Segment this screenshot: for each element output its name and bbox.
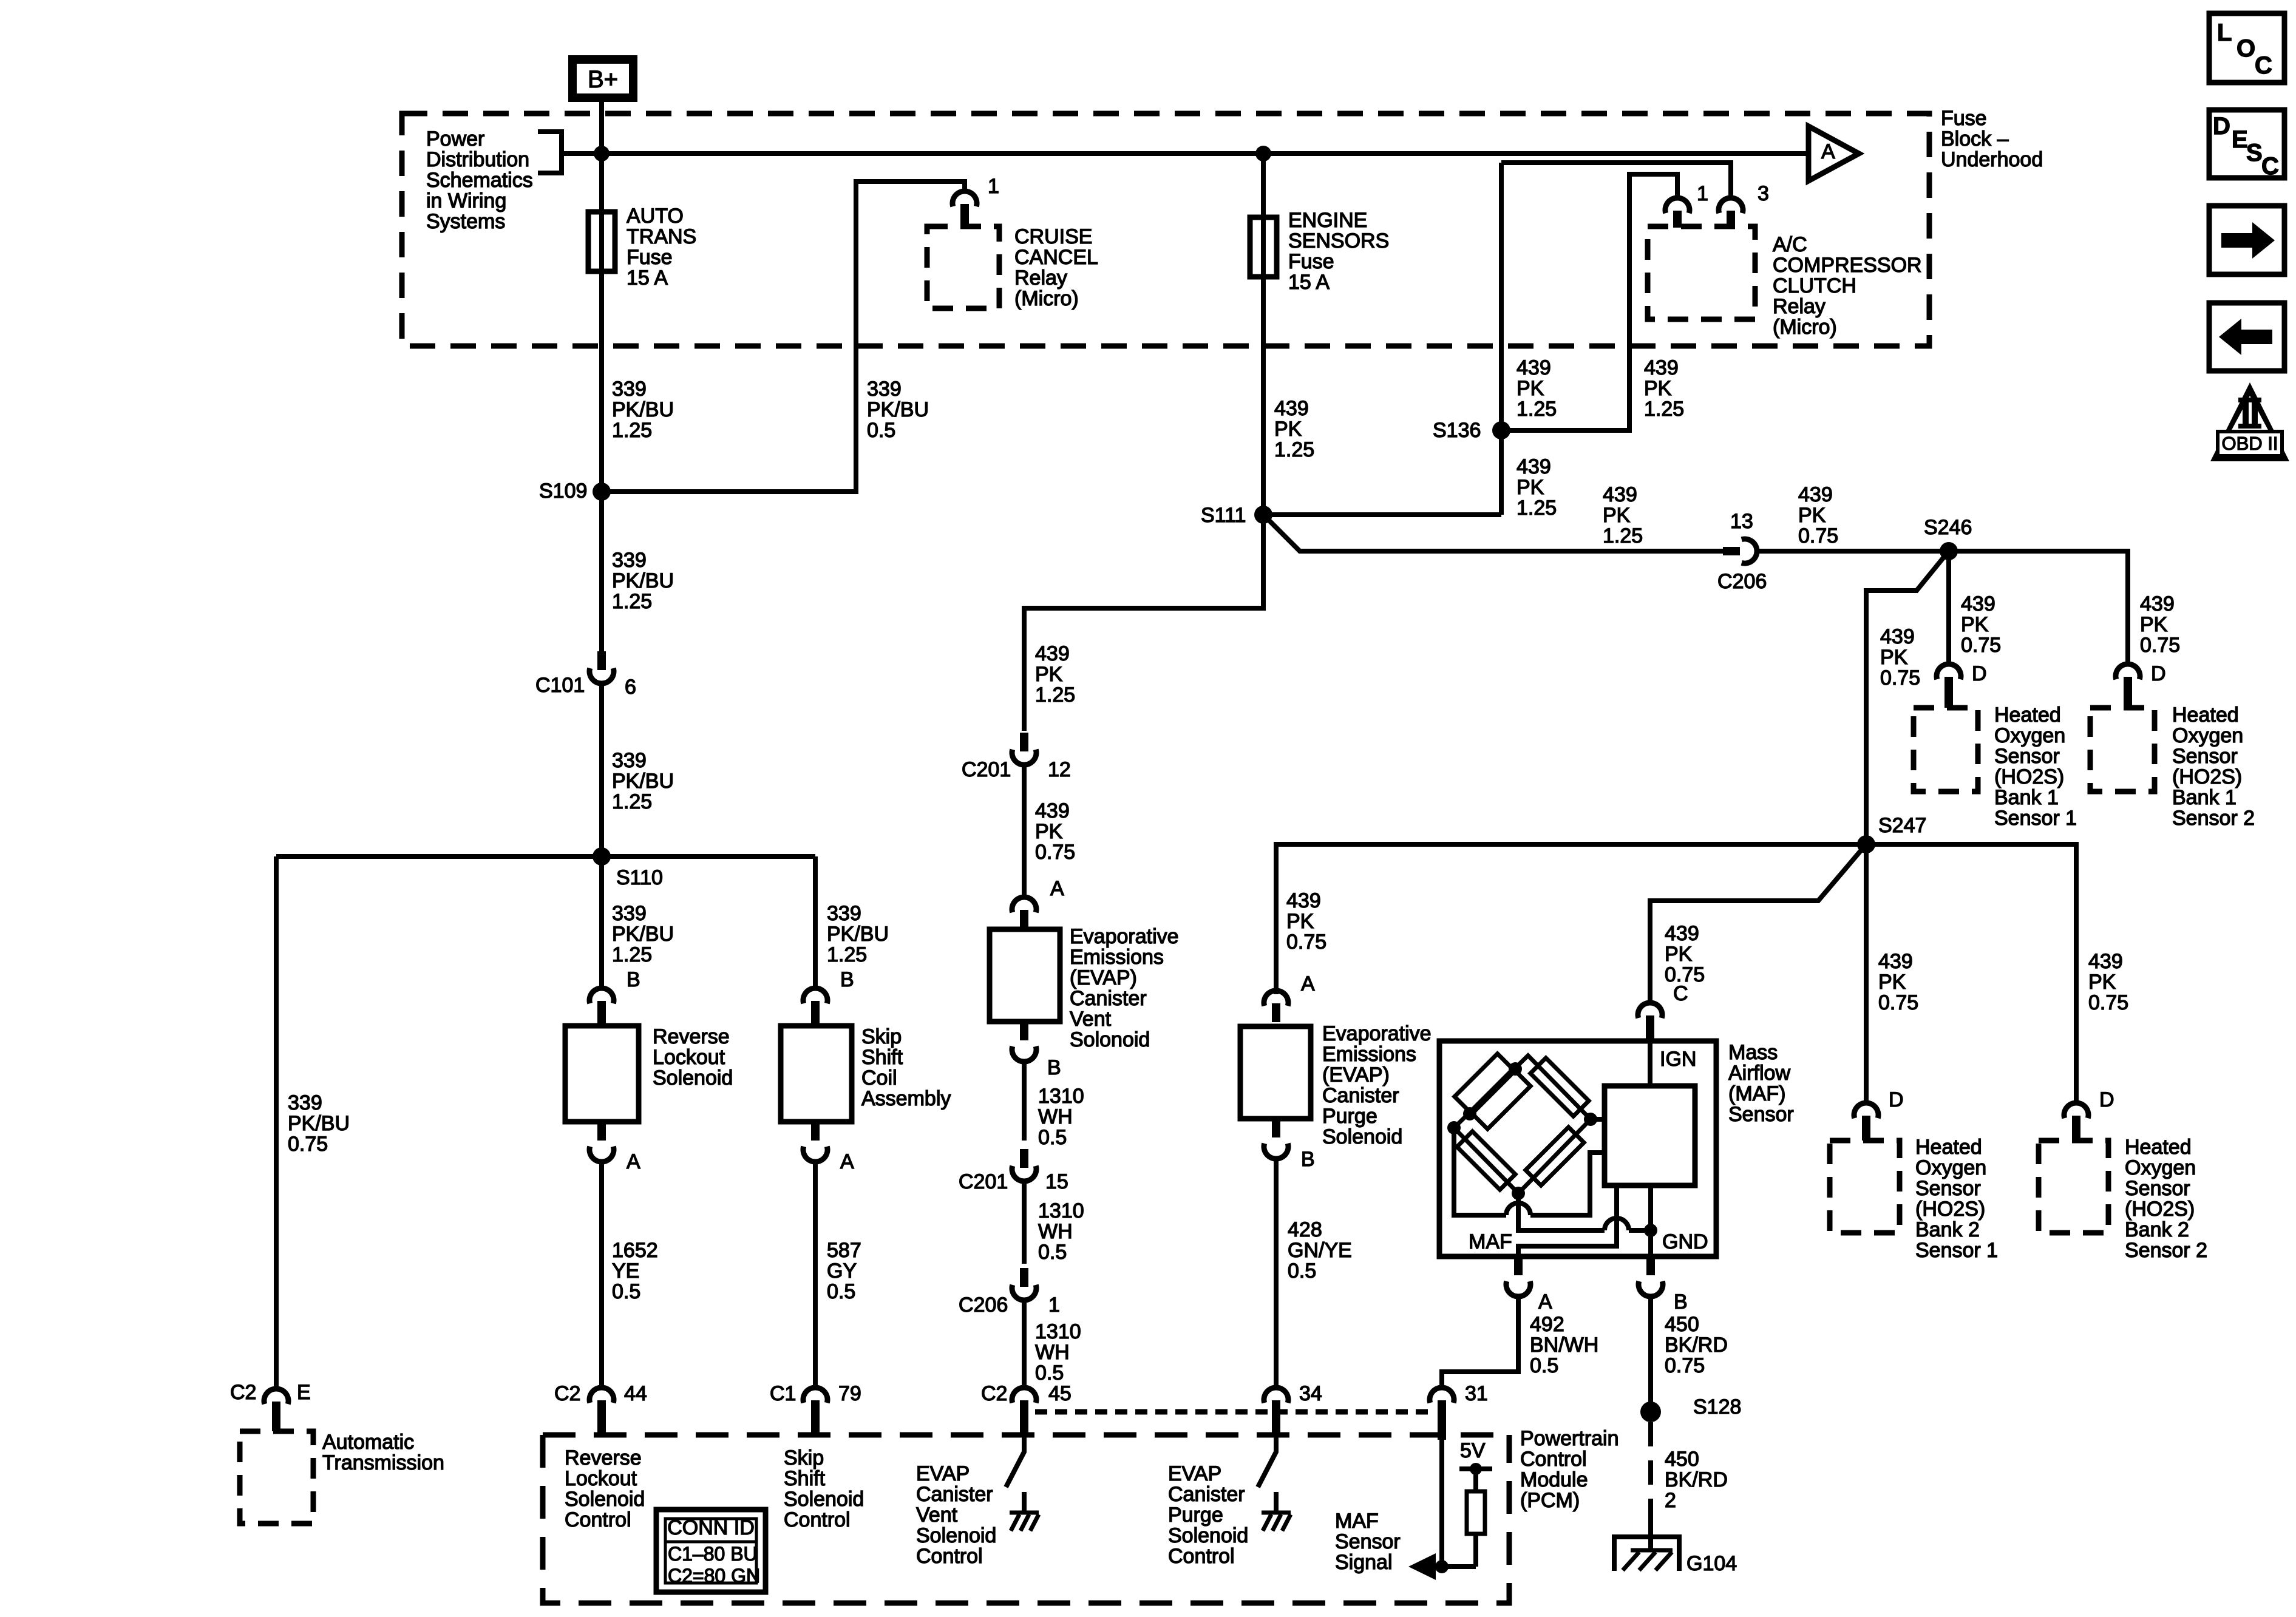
svg-text:1.25: 1.25 bbox=[612, 590, 652, 613]
svg-text:439: 439 bbox=[1961, 592, 1995, 615]
svg-text:15 A: 15 A bbox=[1288, 271, 1330, 294]
wire MAF B to S128 bbox=[1648, 1295, 1653, 1412]
MAF sensor outer box bbox=[1439, 1041, 1716, 1256]
wire S128 to G104 dashed bbox=[1648, 1422, 1653, 1524]
svg-text:Vent: Vent bbox=[1070, 1008, 1112, 1031]
wire B+ down through AUTO TRANS fuse to S109 bbox=[599, 102, 604, 492]
svg-text:0.75: 0.75 bbox=[1880, 666, 1920, 690]
wire S110 right branch to skip shift bbox=[813, 856, 818, 988]
svg-text:439: 439 bbox=[1035, 799, 1070, 822]
connector C206 pin 1 inline bbox=[1012, 1285, 1036, 1300]
svg-text:439: 439 bbox=[1880, 625, 1915, 648]
svg-text:439: 439 bbox=[2088, 950, 2123, 973]
wire MAF A to PCM pin 31 bbox=[1442, 1295, 1518, 1388]
svg-text:6: 6 bbox=[625, 676, 636, 699]
svg-text:3: 3 bbox=[1758, 182, 1769, 205]
svg-text:45: 45 bbox=[1048, 1382, 1072, 1405]
wire bridge left corner loop to amplifier with hop bbox=[1454, 1128, 1506, 1215]
svg-text:Bank 2: Bank 2 bbox=[1915, 1218, 1980, 1241]
svg-text:1.25: 1.25 bbox=[827, 943, 867, 966]
svg-text:0.5: 0.5 bbox=[867, 419, 895, 442]
svg-text:A: A bbox=[840, 1150, 854, 1173]
EVAP purge driver switch and ground bbox=[1258, 1435, 1276, 1487]
svg-text:31: 31 bbox=[1465, 1382, 1488, 1405]
svg-text:Control: Control bbox=[784, 1508, 851, 1531]
svg-text:PK/BU: PK/BU bbox=[612, 770, 674, 793]
connector pin C MAF bbox=[1638, 1003, 1662, 1018]
node S109 bbox=[593, 483, 611, 501]
svg-text:Canister: Canister bbox=[1322, 1084, 1399, 1107]
svg-text:Automatic: Automatic bbox=[322, 1431, 414, 1454]
svg-text:PK: PK bbox=[2140, 613, 2168, 636]
svg-text:0.5: 0.5 bbox=[612, 1280, 640, 1303]
svg-text:BK/RD: BK/RD bbox=[1665, 1334, 1728, 1357]
svg-text:B: B bbox=[627, 968, 640, 991]
svg-text:in Wiring: in Wiring bbox=[426, 189, 506, 212]
wire S247 down to HO2S B2S1 bbox=[1864, 844, 1869, 1103]
svg-text:PK/BU: PK/BU bbox=[827, 923, 889, 946]
svg-text:Solonoid: Solonoid bbox=[1070, 1028, 1150, 1051]
pin 1 connector of cruise cancel relay bbox=[953, 191, 977, 206]
wire S110 horizontal bbox=[276, 854, 815, 859]
svg-text:D: D bbox=[2213, 113, 2230, 140]
svg-text:WH: WH bbox=[1035, 1341, 1070, 1364]
connector PCM pin 31 bbox=[1430, 1388, 1454, 1403]
svg-text:0.75: 0.75 bbox=[2088, 991, 2128, 1014]
wire purge B to PCM pin 34 bbox=[1274, 1158, 1279, 1388]
wire bridge right corner to amplifier bbox=[1591, 1117, 1605, 1122]
svg-text:Reverse: Reverse bbox=[653, 1025, 730, 1048]
svg-text:YE: YE bbox=[612, 1259, 639, 1283]
svg-text:Sensor: Sensor bbox=[1728, 1103, 1794, 1126]
svg-text:C1–80 BU: C1–80 BU bbox=[668, 1543, 758, 1565]
svg-text:GY: GY bbox=[827, 1259, 857, 1283]
svg-text:EVAP: EVAP bbox=[1168, 1462, 1221, 1485]
svg-text:Heated: Heated bbox=[2172, 703, 2239, 727]
svg-text:439: 439 bbox=[1878, 950, 1913, 973]
svg-text:PK: PK bbox=[1878, 971, 1906, 994]
wire C101-6 to S110 bbox=[599, 682, 604, 856]
svg-text:S111: S111 bbox=[1201, 504, 1246, 527]
svg-text:339: 339 bbox=[867, 378, 902, 401]
svg-text:Skip: Skip bbox=[784, 1446, 824, 1470]
svg-text:1310: 1310 bbox=[1038, 1085, 1084, 1108]
svg-text:PK/BU: PK/BU bbox=[612, 923, 674, 946]
svg-text:Bank 1: Bank 1 bbox=[2172, 786, 2237, 809]
svg-text:1.25: 1.25 bbox=[612, 419, 652, 442]
svg-text:PK: PK bbox=[1517, 377, 1544, 400]
svg-text:450: 450 bbox=[1665, 1313, 1699, 1336]
connector pin A EVAP purge bbox=[1264, 991, 1288, 1006]
svg-text:0.5: 0.5 bbox=[1038, 1126, 1067, 1149]
svg-text:439: 439 bbox=[1644, 356, 1679, 379]
icon left arrow box bbox=[2209, 303, 2284, 371]
svg-text:(EVAP): (EVAP) bbox=[1322, 1063, 1390, 1086]
svg-text:B: B bbox=[1301, 1148, 1315, 1171]
svg-text:0.75: 0.75 bbox=[1665, 1354, 1705, 1377]
node S111 bbox=[1254, 506, 1272, 524]
svg-text:B: B bbox=[1674, 1290, 1688, 1314]
svg-text:Heated: Heated bbox=[1915, 1136, 1982, 1159]
svg-text:0.5: 0.5 bbox=[1530, 1354, 1558, 1377]
svg-text:12: 12 bbox=[1048, 758, 1071, 781]
svg-text:Heated: Heated bbox=[2125, 1136, 2192, 1159]
wire pin3 feed from S136 riser bbox=[1501, 163, 1731, 198]
svg-text:S: S bbox=[2246, 140, 2263, 166]
svg-text:A: A bbox=[1821, 140, 1835, 163]
svg-text:79: 79 bbox=[838, 1382, 861, 1405]
svg-text:450: 450 bbox=[1665, 1448, 1699, 1471]
connector C101 pin 6 inline bbox=[599, 492, 604, 651]
svg-text:B+: B+ bbox=[588, 66, 618, 93]
connector pin B EVAP vent bbox=[1020, 1022, 1028, 1040]
svg-text:C: C bbox=[2255, 52, 2272, 79]
svg-text:A/C: A/C bbox=[1773, 233, 1807, 256]
svg-text:A: A bbox=[1301, 972, 1315, 995]
svg-text:0.75: 0.75 bbox=[1286, 931, 1326, 954]
svg-text:Relay: Relay bbox=[1014, 266, 1067, 290]
svg-text:Underhood: Underhood bbox=[1941, 148, 2043, 171]
svg-text:C2: C2 bbox=[981, 1382, 1007, 1405]
PCM dashed box bbox=[543, 1435, 1509, 1603]
svg-text:L: L bbox=[2217, 19, 2232, 46]
svg-text:S136: S136 bbox=[1433, 419, 1481, 442]
svg-text:Sensor: Sensor bbox=[1335, 1530, 1401, 1553]
PCM internal dotted connector line bbox=[1035, 1409, 1430, 1415]
ground G104 bbox=[1614, 1537, 1679, 1571]
svg-text:S109: S109 bbox=[539, 480, 587, 503]
wire S246 diagonal to S247 bbox=[1866, 551, 1949, 844]
svg-text:492: 492 bbox=[1530, 1313, 1564, 1336]
svg-text:Fuse: Fuse bbox=[1288, 250, 1334, 273]
solenoid EVAP canister vent box bbox=[990, 929, 1060, 1022]
wire bridge bottom to GND with hop bbox=[1518, 1193, 1605, 1230]
svg-text:339: 339 bbox=[612, 549, 647, 572]
svg-text:(HO2S): (HO2S) bbox=[1915, 1198, 1985, 1221]
svg-text:Solenoid: Solenoid bbox=[784, 1488, 864, 1511]
wire C206-1 to PCM C2-45 bbox=[1022, 1299, 1027, 1388]
wire S110 down to reverse lockout bbox=[599, 856, 604, 988]
wire EVAP vent B to C201-15 bbox=[1022, 1060, 1027, 1141]
svg-text:PK: PK bbox=[1603, 504, 1631, 527]
svg-text:1.25: 1.25 bbox=[612, 790, 652, 813]
EVAP vent driver switch and ground bbox=[1006, 1435, 1024, 1487]
svg-text:A: A bbox=[1050, 877, 1064, 900]
wire S111 to C206 bbox=[1263, 515, 1723, 551]
svg-text:339: 339 bbox=[612, 749, 647, 772]
svg-text:Oxygen: Oxygen bbox=[2172, 724, 2243, 747]
svg-text:1652: 1652 bbox=[612, 1239, 658, 1262]
svg-text:Emissions: Emissions bbox=[1322, 1043, 1416, 1066]
svg-text:Mass: Mass bbox=[1728, 1041, 1778, 1064]
node bus junction at B+ bbox=[594, 146, 610, 161]
pin 1 connector of A/C relay bbox=[1665, 198, 1690, 213]
svg-text:BK/RD: BK/RD bbox=[1665, 1468, 1728, 1491]
svg-text:B: B bbox=[1047, 1056, 1061, 1079]
wire S136 to pin 1 of A/C relay bbox=[1501, 174, 1677, 430]
svg-text:(EVAP): (EVAP) bbox=[1070, 966, 1137, 989]
connector pin A reverse lockout bbox=[597, 1122, 606, 1141]
svg-text:439: 439 bbox=[1665, 922, 1699, 945]
svg-text:C201: C201 bbox=[959, 1170, 1008, 1193]
svg-text:E: E bbox=[297, 1381, 311, 1404]
sensor HO2S Bank1 Sensor1 dashed box bbox=[1914, 708, 1978, 792]
connector pin A EVAP vent bbox=[1012, 897, 1036, 912]
relay A/C COMPRESSOR CLUTCH (Micro) dashed box bbox=[1648, 226, 1755, 319]
svg-text:0.75: 0.75 bbox=[288, 1133, 328, 1156]
connector pin B MAF (ground) bbox=[1646, 1256, 1655, 1275]
connector pin A skip shift bbox=[811, 1122, 820, 1141]
svg-text:Bank 1: Bank 1 bbox=[1994, 786, 2059, 809]
svg-text:C2: C2 bbox=[554, 1382, 580, 1405]
connector C2 pin E automatic transmission bbox=[264, 1389, 288, 1404]
svg-text:MAF: MAF bbox=[1469, 1230, 1512, 1253]
svg-text:PK/BU: PK/BU bbox=[288, 1112, 350, 1135]
svg-text:(HO2S): (HO2S) bbox=[2125, 1198, 2195, 1221]
node S110 bbox=[593, 847, 611, 866]
svg-text:587: 587 bbox=[827, 1239, 861, 1262]
svg-text:PK: PK bbox=[1035, 820, 1063, 843]
wire bus down through ENGINE SENSORS fuse to S111 bbox=[1261, 154, 1266, 515]
svg-text:Powertrain: Powertrain bbox=[1520, 1427, 1619, 1450]
svg-text:1: 1 bbox=[1697, 182, 1708, 205]
svg-text:Control: Control bbox=[916, 1545, 983, 1568]
svg-text:1310: 1310 bbox=[1038, 1199, 1084, 1222]
svg-text:(Micro): (Micro) bbox=[1014, 287, 1079, 310]
svg-text:A: A bbox=[627, 1150, 640, 1173]
connector pin D HO2S B1S2 bbox=[2116, 664, 2140, 679]
svg-text:(MAF): (MAF) bbox=[1728, 1082, 1785, 1105]
svg-text:0.5: 0.5 bbox=[1288, 1259, 1316, 1283]
svg-text:PK: PK bbox=[1644, 377, 1672, 400]
svg-text:Systems: Systems bbox=[426, 210, 505, 233]
svg-text:PK/BU: PK/BU bbox=[612, 569, 674, 592]
wire S136 riser bbox=[1499, 163, 1504, 515]
wire amplifier GND pin bbox=[1648, 1185, 1653, 1256]
svg-text:S247: S247 bbox=[1878, 814, 1926, 837]
sensor HO2S Bank1 Sensor2 dashed box bbox=[2090, 708, 2155, 792]
svg-text:E: E bbox=[2232, 126, 2248, 153]
svg-text:Purge: Purge bbox=[1322, 1105, 1377, 1128]
svg-text:Schematics: Schematics bbox=[426, 169, 533, 192]
svg-text:Emissions: Emissions bbox=[1070, 946, 1164, 969]
svg-text:1.25: 1.25 bbox=[1274, 438, 1314, 461]
svg-text:C1: C1 bbox=[770, 1382, 796, 1405]
svg-text:339: 339 bbox=[827, 902, 861, 925]
MAF signal arrow bbox=[1433, 1564, 1476, 1569]
svg-text:428: 428 bbox=[1288, 1218, 1322, 1241]
svg-text:PK: PK bbox=[1517, 476, 1544, 499]
svg-text:13: 13 bbox=[1730, 510, 1753, 533]
svg-text:C2=80 GN: C2=80 GN bbox=[668, 1565, 760, 1587]
wire C201-12 to EVAP vent A bbox=[1022, 764, 1027, 897]
svg-text:1.25: 1.25 bbox=[1517, 398, 1557, 421]
svg-text:PK: PK bbox=[1665, 943, 1693, 966]
connector pin D HO2S B2S1 bbox=[1854, 1103, 1878, 1118]
connector PCM pin C2-44 bbox=[589, 1388, 614, 1403]
svg-text:Shift: Shift bbox=[784, 1467, 826, 1490]
svg-text:Control: Control bbox=[1520, 1448, 1587, 1471]
svg-text:Sensor: Sensor bbox=[1915, 1177, 1981, 1200]
svg-text:C206: C206 bbox=[959, 1293, 1008, 1317]
connector PCM pin C1-79 bbox=[803, 1388, 827, 1403]
node bus junction at ENGINE SENSORS fuse bbox=[1255, 146, 1271, 161]
svg-text:Sensor 2: Sensor 2 bbox=[2172, 807, 2255, 830]
svg-text:0.5: 0.5 bbox=[827, 1280, 855, 1303]
sensor HO2S Bank2 Sensor1 dashed box bbox=[1830, 1141, 1900, 1233]
svg-text:PK: PK bbox=[2088, 971, 2116, 994]
connector pin A MAF (signal) bbox=[1514, 1256, 1523, 1275]
wire S136 riser to S111 bbox=[1263, 512, 1501, 517]
wire S246 down to HO2S B1S1 bbox=[1946, 551, 1951, 664]
sensor HO2S Bank2 Sensor2 dashed box bbox=[2039, 1141, 2108, 1233]
node S246 bbox=[1940, 542, 1958, 560]
svg-text:Bank 2: Bank 2 bbox=[2125, 1218, 2189, 1241]
MAF bridge resistors bbox=[1472, 1071, 1530, 1129]
svg-text:PK/BU: PK/BU bbox=[612, 398, 674, 421]
svg-text:B: B bbox=[840, 968, 854, 991]
svg-text:BN/WH: BN/WH bbox=[1530, 1334, 1598, 1357]
svg-text:PK: PK bbox=[1286, 910, 1314, 933]
svg-text:0.5: 0.5 bbox=[1035, 1361, 1064, 1385]
svg-text:WH: WH bbox=[1038, 1105, 1073, 1128]
svg-text:Oxygen: Oxygen bbox=[1915, 1156, 1986, 1179]
wire S109 to cruise cancel relay pin 1 bbox=[602, 181, 965, 492]
wire main bus to triangle A bbox=[602, 151, 1806, 156]
svg-text:Relay: Relay bbox=[1773, 295, 1826, 318]
wire S247 left to EVAP purge bbox=[1276, 844, 1866, 994]
svg-text:15: 15 bbox=[1045, 1170, 1068, 1193]
svg-text:Evaporative: Evaporative bbox=[1070, 925, 1179, 948]
svg-text:Fuse: Fuse bbox=[627, 246, 673, 269]
svg-text:A: A bbox=[1538, 1290, 1552, 1314]
relay CRUISE CANCEL (Micro) dashed box bbox=[927, 226, 999, 308]
wire IGN into amplifier bbox=[1648, 1041, 1652, 1086]
MAF internal amplifier box bbox=[1605, 1086, 1695, 1185]
svg-text:Control: Control bbox=[1168, 1545, 1235, 1568]
connector pin B reverse lockout bbox=[589, 988, 614, 1003]
fuse block underhood dashed box bbox=[402, 114, 1929, 346]
svg-text:S246: S246 bbox=[1924, 516, 1972, 539]
svg-text:PK: PK bbox=[1035, 663, 1063, 686]
svg-text:34: 34 bbox=[1299, 1382, 1322, 1405]
svg-text:CRUISE: CRUISE bbox=[1014, 225, 1092, 248]
connector C206 pin 13 inline bbox=[1742, 539, 1757, 563]
svg-text:TRANS: TRANS bbox=[627, 225, 696, 248]
svg-text:CANCEL: CANCEL bbox=[1014, 246, 1098, 269]
svg-text:C206: C206 bbox=[1717, 570, 1767, 593]
svg-text:Assembly: Assembly bbox=[861, 1087, 951, 1110]
svg-text:Skip: Skip bbox=[861, 1025, 902, 1048]
svg-text:44: 44 bbox=[624, 1382, 647, 1405]
wire amplifier output to MAF pin bbox=[1518, 1185, 1617, 1256]
wire S247 right to HO2S B2S2 bbox=[1866, 844, 2076, 1103]
svg-text:Oxygen: Oxygen bbox=[1994, 724, 2065, 747]
svg-text:Sensor: Sensor bbox=[2125, 1177, 2190, 1200]
connector pin B EVAP purge bbox=[1272, 1119, 1280, 1137]
node S247 bbox=[1857, 835, 1875, 853]
svg-text:1: 1 bbox=[1048, 1293, 1060, 1317]
connector C201 pin 15 inline bbox=[1012, 1166, 1036, 1181]
connector pin D HO2S B2S2 bbox=[2064, 1103, 2088, 1118]
svg-text:MAF: MAF bbox=[1335, 1510, 1379, 1533]
svg-text:Solenoid: Solenoid bbox=[565, 1488, 645, 1511]
svg-text:Sensor 1: Sensor 1 bbox=[1915, 1239, 1998, 1262]
wire C201-15 to C206-1 bbox=[1022, 1180, 1027, 1264]
connector C201 pin 12 inline bbox=[1012, 750, 1036, 765]
svg-text:1: 1 bbox=[988, 175, 999, 198]
svg-text:Purge: Purge bbox=[1168, 1503, 1223, 1527]
svg-text:Lockout: Lockout bbox=[565, 1467, 637, 1490]
wire reverse lockout A to PCM C2-44 bbox=[599, 1161, 604, 1388]
svg-text:CONN ID: CONN ID bbox=[667, 1516, 755, 1539]
svg-text:339: 339 bbox=[612, 902, 647, 925]
connector pin D HO2S B1S1 bbox=[1937, 664, 1961, 679]
svg-text:15 A: 15 A bbox=[627, 266, 668, 290]
svg-text:(HO2S): (HO2S) bbox=[1994, 765, 2064, 788]
svg-text:439: 439 bbox=[1286, 889, 1321, 912]
svg-text:0.75: 0.75 bbox=[1798, 524, 1838, 547]
wire C206 to S246 bbox=[1756, 549, 2128, 554]
wire skip shift A to PCM C1-79 bbox=[813, 1161, 818, 1388]
MAF bridge wires bbox=[1454, 1056, 1591, 1193]
svg-text:339: 339 bbox=[288, 1091, 322, 1114]
svg-text:Canister: Canister bbox=[916, 1483, 993, 1506]
svg-text:C: C bbox=[2261, 153, 2279, 180]
svg-text:D: D bbox=[2151, 662, 2166, 685]
svg-text:Solenoid: Solenoid bbox=[1168, 1524, 1248, 1547]
svg-text:C: C bbox=[1673, 982, 1688, 1005]
svg-text:439: 439 bbox=[2140, 592, 2175, 615]
svg-text:G104: G104 bbox=[1686, 1552, 1737, 1575]
fuse AUTO TRANS 15A bbox=[588, 212, 615, 271]
arrow A to fuse block bbox=[1809, 126, 1859, 181]
svg-text:(HO2S): (HO2S) bbox=[2172, 765, 2242, 788]
svg-text:Sensor: Sensor bbox=[1994, 745, 2060, 768]
svg-text:Solenoid: Solenoid bbox=[1322, 1125, 1402, 1148]
svg-text:0.75: 0.75 bbox=[1961, 634, 2001, 657]
svg-text:Airflow: Airflow bbox=[1728, 1062, 1790, 1085]
svg-text:439: 439 bbox=[1035, 642, 1070, 665]
svg-text:Canister: Canister bbox=[1168, 1483, 1245, 1506]
automatic transmission dashed box bbox=[240, 1431, 313, 1524]
wire S246 right to HO2S B1S2 bbox=[1949, 551, 2128, 664]
wire left branch to automatic transmission C2-E bbox=[274, 856, 279, 1389]
svg-text:C2: C2 bbox=[230, 1381, 256, 1404]
svg-text:0.75: 0.75 bbox=[1878, 991, 1918, 1014]
svg-text:1.25: 1.25 bbox=[1644, 398, 1684, 421]
power symbol B+ bbox=[572, 59, 633, 98]
svg-text:D: D bbox=[1972, 662, 1987, 685]
icon OBD II triangle bbox=[2210, 382, 2289, 461]
svg-text:S128: S128 bbox=[1693, 1395, 1741, 1419]
svg-text:Heated: Heated bbox=[1994, 703, 2061, 727]
bracket to bus bbox=[538, 132, 602, 173]
svg-text:O: O bbox=[2237, 35, 2255, 62]
svg-text:1.25: 1.25 bbox=[1035, 683, 1075, 707]
svg-text:PK: PK bbox=[1961, 613, 1989, 636]
icon right arrow box bbox=[2209, 206, 2284, 274]
svg-text:(Micro): (Micro) bbox=[1773, 316, 1837, 339]
svg-text:2: 2 bbox=[1665, 1489, 1676, 1512]
svg-text:D: D bbox=[1889, 1088, 1904, 1111]
svg-text:Fuse: Fuse bbox=[1941, 107, 1987, 130]
svg-text:1.25: 1.25 bbox=[1603, 524, 1643, 547]
svg-text:Canister: Canister bbox=[1070, 987, 1147, 1010]
svg-text:D: D bbox=[2099, 1088, 2114, 1111]
svg-text:1.25: 1.25 bbox=[612, 943, 652, 966]
connector PCM pin C2-45 bbox=[1012, 1388, 1036, 1403]
